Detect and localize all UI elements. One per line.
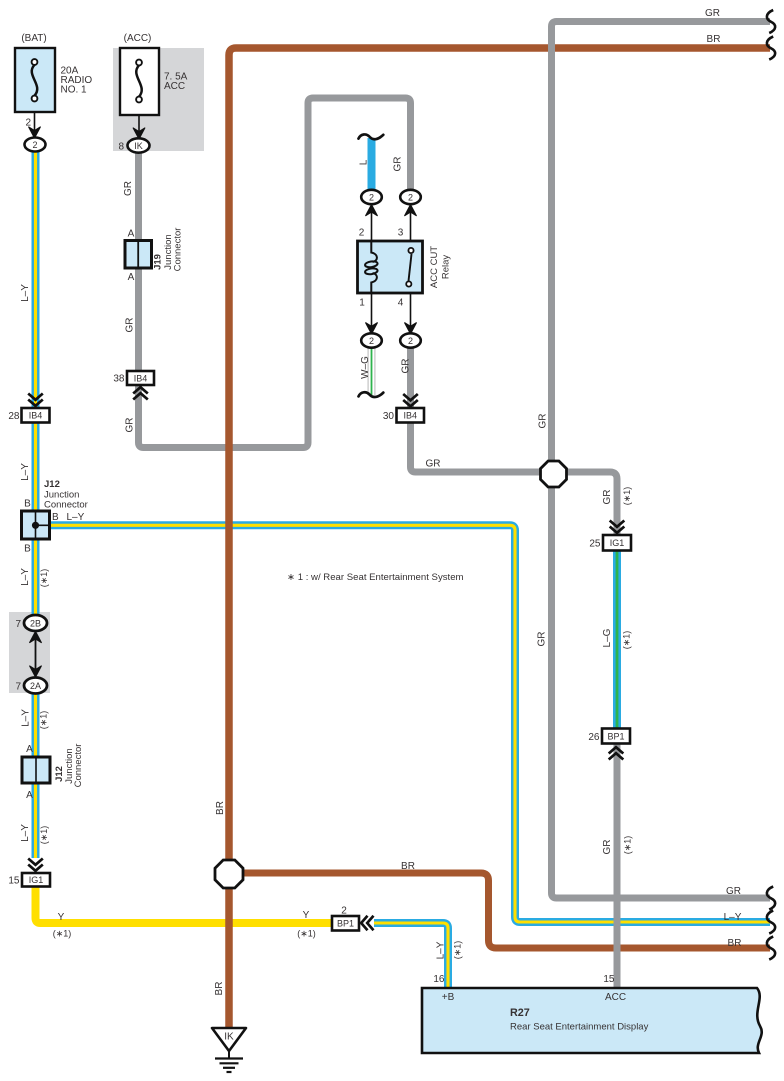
svg-text:∗ 1 : w/ Rear Seat Entertainme: ∗ 1 : w/ Rear Seat Entertainment System [287,572,464,583]
svg-text:B: B [52,512,59,523]
svg-text:GR: GR [705,8,720,19]
svg-text:NO. 1: NO. 1 [61,85,88,96]
svg-text:+B: +B [442,992,455,1003]
svg-text:A: A [128,272,135,283]
svg-text:IG1: IG1 [29,875,44,885]
svg-text:GR: GR [125,418,136,433]
svg-text:R27: R27 [510,1007,530,1019]
svg-text:(∗1): (∗1) [297,929,316,939]
svg-text:38: 38 [113,374,125,385]
svg-text:1: 1 [359,298,365,309]
svg-text:L–Y: L–Y [436,941,447,959]
svg-text:28: 28 [8,411,20,422]
svg-text:2: 2 [25,118,31,129]
svg-text:2A: 2A [30,681,41,691]
svg-text:L–Y: L–Y [20,824,31,842]
svg-text:L–Y: L–Y [20,463,31,481]
svg-text:2B: 2B [30,619,41,629]
svg-text:IK: IK [224,1032,234,1043]
svg-text:B: B [24,499,31,510]
svg-text:B: B [24,544,31,555]
svg-text:2: 2 [341,906,347,917]
svg-text:GR: GR [123,181,134,196]
svg-text:(∗1): (∗1) [39,826,49,845]
svg-text:J12: J12 [44,479,60,490]
svg-text:L–Y: L–Y [20,568,31,586]
svg-text:IB4: IB4 [29,411,43,421]
svg-text:A: A [128,229,135,240]
svg-text:GR: GR [537,632,548,647]
svg-text:Y: Y [58,912,65,923]
svg-text:(∗1): (∗1) [623,836,633,855]
svg-text:(BAT): (BAT) [21,33,46,44]
svg-text:IG1: IG1 [610,538,625,548]
svg-text:BR: BR [707,34,721,45]
svg-text:16: 16 [433,974,445,985]
svg-text:(∗1): (∗1) [39,711,49,730]
svg-text:(ACC): (ACC) [124,33,152,44]
svg-text:L–G: L–G [602,628,613,647]
svg-text:ACC CUT: ACC CUT [429,246,440,288]
svg-text:A: A [26,790,33,801]
svg-text:(∗1): (∗1) [39,569,49,588]
svg-text:3: 3 [398,228,404,239]
svg-text:GR: GR [602,490,613,505]
svg-text:Rear Seat Entertainment Displa: Rear Seat Entertainment Display [510,1022,649,1033]
svg-text:(∗1): (∗1) [622,631,632,650]
svg-text:J19: J19 [153,254,164,270]
svg-text:L–Y: L–Y [20,284,31,302]
svg-text:W–G: W–G [360,356,371,379]
svg-text:BP1: BP1 [607,731,624,741]
svg-text:(∗1): (∗1) [53,929,72,939]
svg-text:8: 8 [118,142,124,153]
svg-text:ACC: ACC [164,81,185,92]
svg-text:Connector: Connector [173,228,184,272]
svg-text:GR: GR [125,318,136,333]
svg-text:(∗1): (∗1) [453,941,463,960]
svg-text:L–Y: L–Y [21,709,32,727]
svg-text:BR: BR [214,982,225,996]
svg-text:IB4: IB4 [403,411,417,421]
svg-text:L–Y: L–Y [67,512,85,523]
svg-text:GR: GR [393,157,404,172]
svg-text:Connector: Connector [44,500,88,511]
svg-text:A: A [26,744,33,755]
svg-text:2: 2 [369,193,374,203]
svg-text:IK: IK [134,141,143,151]
svg-text:BR: BR [401,861,415,872]
svg-text:IB4: IB4 [134,373,148,383]
svg-text:(∗1): (∗1) [622,487,632,506]
svg-text:15: 15 [8,876,20,887]
svg-text:L–Y: L–Y [724,912,742,923]
svg-text:30: 30 [383,411,395,422]
svg-text:2: 2 [359,228,365,239]
svg-text:4: 4 [398,298,404,309]
svg-text:GR: GR [401,359,412,374]
svg-text:2: 2 [369,336,374,346]
svg-text:BP1: BP1 [337,919,354,929]
svg-text:7: 7 [15,619,21,630]
svg-text:Y: Y [303,910,310,921]
svg-text:BR: BR [215,801,226,815]
svg-text:GR: GR [602,840,613,855]
svg-text:2: 2 [408,193,413,203]
svg-text:26: 26 [588,732,600,743]
svg-text:Connector: Connector [73,744,84,788]
svg-text:ACC: ACC [605,992,626,1003]
svg-text:25: 25 [589,539,601,550]
svg-text:7: 7 [15,682,21,693]
svg-text:L: L [359,159,370,165]
svg-text:GR: GR [726,886,741,897]
svg-text:2: 2 [32,140,37,150]
svg-text:BR: BR [728,938,742,949]
svg-text:15: 15 [603,974,615,985]
svg-text:2: 2 [408,336,413,346]
svg-text:Relay: Relay [441,255,452,280]
svg-text:GR: GR [426,459,441,470]
svg-text:GR: GR [538,414,549,429]
